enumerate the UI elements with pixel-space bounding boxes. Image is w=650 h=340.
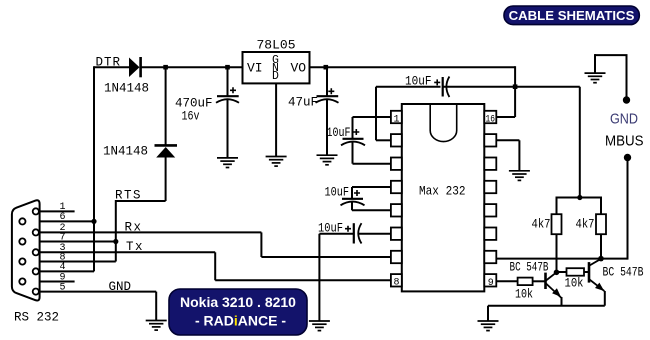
wire resistor top rail	[557, 197, 602, 199]
wire into MAX232 pin 2	[376, 139, 391, 141]
wire MAX232 pin 9 to resistor R3	[496, 280, 517, 282]
wire DB9 pin 1 stub	[39, 210, 75, 212]
svg-text:Nokia 3210 . 8210: Nokia 3210 . 8210	[180, 294, 296, 310]
wire DB9 pin 7	[25, 241, 115, 243]
wire GND pad horizontal	[595, 54, 628, 56]
svg-text:Tx: Tx	[126, 240, 143, 254]
node junction DTR / pin6	[91, 219, 96, 224]
connector DB9 outline	[12, 200, 40, 300]
wire MBUS vertical	[627, 158, 629, 260]
wire capacitor C6 bottom stem	[326, 100, 328, 155]
svg-text:DTR: DTR	[96, 56, 121, 70]
svg-text:10uF: 10uF	[318, 222, 343, 236]
svg-text:Max 232: Max 232	[419, 185, 466, 199]
ground below C4	[309, 321, 330, 331]
wire Rx jog vertical	[260, 232, 262, 257]
capacitor C1 10uF	[341, 129, 365, 145]
wire resistor R2 bottom stem	[600, 234, 602, 258]
svg-text:- RADiANCE -: - RADiANCE -	[195, 313, 286, 329]
capacitor C5 470uF 16v	[216, 87, 239, 103]
svg-text:GND: GND	[109, 280, 132, 294]
wire capacitor C4 right to MAX232 pin 6	[358, 233, 391, 235]
svg-text:16v: 16v	[182, 110, 200, 124]
ground below C5	[217, 158, 238, 168]
wire node to resistor R4	[557, 271, 567, 273]
svg-text:6: 6	[60, 212, 66, 223]
wire resistor R4 to Q2 base	[584, 271, 589, 273]
wire capacitor C3 left	[376, 86, 441, 88]
wire DTR vertical to DB9 pin 4	[93, 66, 95, 271]
svg-text:1N4148: 1N4148	[103, 145, 148, 159]
wire capacitor C4 to ground vertical	[318, 234, 320, 321]
wire GND pad vertical	[626, 55, 628, 100]
wire capacitor C1 top stem	[352, 117, 354, 139]
ground emitter rail	[478, 321, 499, 331]
svg-text:7: 7	[60, 233, 66, 244]
chip U1 right pin boxes 16-9	[484, 111, 496, 287]
wire DTR horizontal	[94, 66, 130, 68]
svg-text:BC 547B: BC 547B	[603, 265, 644, 279]
wire node diode D2 branch vertical	[165, 67, 167, 145]
wire DB9 pin 6	[25, 220, 94, 222]
svg-text:8: 8	[394, 278, 400, 289]
chip U1 notch	[430, 104, 457, 142]
svg-text:10uF: 10uF	[405, 75, 432, 89]
svg-text:D: D	[272, 70, 279, 83]
ground top right GND pad	[585, 73, 606, 83]
capacitor C4 10uF	[345, 223, 362, 243]
wire diode D1 cathode to regulator VI	[141, 66, 243, 68]
wire capacitor C2 bottom to pin 5	[352, 209, 391, 211]
svg-text:4k7: 4k7	[532, 217, 551, 231]
wire DB9 pin 3 Tx	[39, 251, 215, 253]
node junction RTS / pin7	[113, 239, 118, 244]
resistor R4 10k	[567, 268, 585, 276]
wire Tx jog vertical	[214, 252, 216, 280]
ground below C6	[317, 155, 338, 165]
capacitor C6 47uF	[316, 88, 339, 103]
connector DB9 pin circles	[19, 208, 39, 294]
wire RTS horizontal	[116, 200, 166, 202]
capacitor C2 10uF	[341, 190, 365, 205]
wire MAX232 pin 15	[496, 139, 519, 141]
node junction 47uF tap	[324, 65, 329, 70]
wire pin 15 to ground	[518, 140, 520, 170]
chip U1 MAX232 body	[402, 104, 485, 291]
title box CABLE SHEMATICS	[504, 6, 639, 25]
svg-text:MBUS: MBUS	[605, 133, 644, 149]
wire capacitor C2 top stem	[351, 187, 353, 199]
wire +5V to pull-up resistors	[515, 86, 580, 88]
wire resistor R1 top stem	[556, 197, 558, 215]
ground below MAX232 pin 15	[509, 171, 530, 181]
wire GND pad to ground	[594, 54, 596, 73]
svg-text:47uF: 47uF	[288, 96, 318, 110]
wire +5V vertical to pin 16	[514, 66, 516, 117]
wire capacitor C3 to MAX232 pin 2 vertical	[375, 87, 377, 141]
wire resistor R3 to Q1 base	[533, 280, 546, 282]
wire capacitor C5 bottom stem	[227, 100, 229, 157]
wire VO +5V rail	[310, 66, 516, 68]
wire Rx to MAX232 pin 7	[261, 256, 391, 258]
diode D2 1N4148	[155, 145, 178, 157]
node junction resistor rail	[577, 195, 582, 200]
wire DB9 pin 2 Rx	[39, 231, 262, 233]
transistor Q2 BC547B	[589, 259, 604, 291]
svg-text:GND: GND	[610, 111, 638, 127]
chip U1 left pin boxes 1-8	[391, 111, 402, 287]
wire diode D2 anode stem	[165, 157, 167, 201]
wire rail to ground	[487, 306, 489, 321]
node junction +5V / C3	[513, 84, 518, 89]
wire DB9 pin 5 GND	[39, 291, 156, 293]
wire DB9 pin 9 stub	[25, 281, 74, 283]
resistor R2 4k7	[596, 214, 606, 234]
svg-text:RS 232: RS 232	[14, 311, 59, 325]
svg-text:1: 1	[394, 114, 400, 125]
ground below regulator	[266, 157, 287, 167]
diode D1 1N4148	[129, 57, 141, 77]
wire Tx to MAX232 pin 8	[215, 279, 391, 281]
wire capacitor C3 right to +5V node	[443, 86, 515, 88]
wire capacitor C4 left	[319, 233, 353, 235]
svg-text:RTS: RTS	[115, 189, 141, 203]
wire RTS vertical to DB9 pins 7,8	[115, 200, 117, 262]
wire capacitor C1 bottom stem	[352, 143, 354, 164]
wire capacitor C5 top stem	[227, 67, 229, 95]
caption box Nokia 3210 . 8210 RADiANCE	[169, 289, 307, 335]
node junction DTR-diode branch	[163, 65, 168, 70]
wire MAX232 pin 16	[496, 116, 515, 118]
wire resistor R2 top stem	[600, 197, 602, 215]
svg-text:BC 547B: BC 547B	[510, 260, 549, 274]
capacitor C3 10uF	[434, 77, 449, 98]
node junction 470uF tap	[225, 65, 230, 70]
node junction Q1 collector	[554, 270, 560, 276]
wire GND vertical to ground	[155, 292, 157, 320]
svg-text:10k: 10k	[565, 277, 584, 291]
svg-text:78L05: 78L05	[257, 38, 296, 53]
svg-text:VI: VI	[247, 61, 263, 76]
wire emitter ground rail	[488, 305, 605, 307]
svg-text:CABLE SHEMATICS: CABLE SHEMATICS	[509, 8, 635, 23]
svg-text:10uF: 10uF	[327, 126, 351, 140]
wire capacitor C2 bottom stem	[351, 203, 353, 211]
svg-text:470uF: 470uF	[175, 97, 213, 111]
wire capacitor C1 top to pin 1	[353, 116, 391, 118]
svg-text:Rx: Rx	[125, 221, 142, 235]
wire MAX232 pin 10 to MBUS node	[496, 258, 627, 260]
wire capacitor C6 top stem	[326, 67, 328, 95]
node junction Q2 collector / MBUS	[598, 256, 604, 262]
svg-text:1N4148: 1N4148	[104, 82, 149, 96]
resistor R3 10k	[518, 278, 533, 286]
pad MBUS terminal	[624, 154, 631, 161]
regulator U2 78L05	[243, 52, 310, 83]
wire regulator ground pin	[275, 83, 277, 156]
wire DB9 pin 4	[39, 270, 94, 272]
wire resistor R1 bottom stem	[556, 234, 558, 272]
wire Q2 emitter drop	[604, 291, 606, 306]
resistor R1 4k7	[552, 214, 562, 234]
svg-text:VO: VO	[291, 61, 307, 76]
wire Q1 emitter drop	[561, 297, 563, 306]
svg-text:10k: 10k	[515, 288, 533, 302]
wire capacitor C2 top to pin 4	[352, 186, 391, 188]
wire capacitor C1 bottom to pin 3	[353, 163, 391, 165]
svg-text:4k7: 4k7	[576, 217, 595, 231]
svg-text:9: 9	[488, 278, 494, 289]
ground DB9 GND	[146, 321, 167, 331]
pad GND terminal	[623, 96, 630, 103]
svg-text:16: 16	[486, 114, 496, 125]
wire DB9 pin 8	[25, 261, 115, 263]
wire resistor feed vertical	[579, 87, 581, 198]
svg-text:5: 5	[60, 283, 66, 294]
transistor Q1 BC547B	[546, 272, 562, 297]
svg-text:10uF: 10uF	[325, 186, 350, 200]
